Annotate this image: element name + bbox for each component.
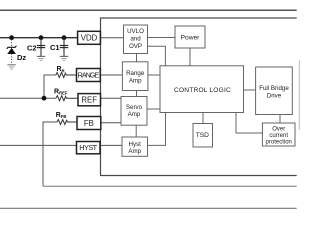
svg-text:OVP: OVP [129, 43, 142, 50]
wire HYST line [0, 144, 77, 146]
wire Range Amp to control logic [148, 74, 160, 76]
wire VDD supply rail [0, 37, 78, 39]
wire control logic to over current protection [236, 113, 262, 134]
wire bottom rail [0, 207, 297, 209]
wire Power to control logic [189, 48, 191, 66]
svg-text:Amp: Amp [128, 111, 141, 118]
wire Hyst Amp to control logic [148, 113, 166, 146]
svg-text:Hyst: Hyst [129, 141, 142, 148]
svg-text:TSD: TSD [196, 132, 209, 139]
wire VDD to UVLO [100, 37, 123, 39]
wire UVLO to Power [148, 37, 176, 39]
wire control logic to TSD [202, 113, 204, 124]
node junction REF [42, 96, 47, 101]
zener diode Dz [7, 40, 17, 70]
pin HYST [77, 142, 101, 154]
svg-text:HYST: HYST [79, 143, 97, 152]
svg-text:Dz: Dz [17, 53, 26, 62]
wire FB branch [43, 122, 57, 186]
svg-text:protection: protection [266, 139, 292, 145]
wire Servo Amp to control logic [147, 108, 160, 110]
block Servo Amp [121, 97, 147, 126]
wire top output rail [0, 9, 297, 11]
block Hyst Amp [122, 137, 148, 156]
node junction C1 [62, 35, 67, 40]
wire HYST to Hyst Amp [100, 144, 122, 146]
pin REF [78, 94, 101, 106]
wire REF line [0, 97, 56, 99]
IC outline [101, 18, 297, 176]
block Full Bridge Drive [256, 67, 293, 115]
wire clipped right edge [298, 60, 300, 130]
node junction C2 [39, 35, 44, 40]
resistor RREF [56, 96, 78, 101]
wire RANGE to Range Amp [100, 74, 122, 76]
svg-text:current: current [269, 133, 288, 139]
wire UVLO to control logic [148, 46, 166, 66]
svg-text:FB: FB [84, 119, 94, 128]
block TSD [193, 124, 213, 148]
svg-text:RANGE: RANGE [78, 71, 100, 80]
svg-text:Drive: Drive [267, 93, 282, 100]
wire REF to Servo Amp [101, 97, 122, 99]
resistor RR [56, 73, 77, 78]
svg-text:C1: C1 [50, 43, 60, 52]
svg-text:REF: REF [81, 95, 97, 104]
capacitor C2 [37, 38, 45, 61]
wire RANGE branch [44, 75, 56, 98]
resistor RFB [57, 120, 77, 125]
svg-text:CONTROL LOGIC: CONTROL LOGIC [174, 87, 231, 94]
svg-text:UVLO: UVLO [127, 28, 144, 35]
svg-text:Amp: Amp [128, 148, 141, 155]
svg-text:Power: Power [181, 35, 200, 42]
wire Servo Amp to Hyst Amp [135, 125, 137, 137]
wire FB to Servo Amp [101, 122, 121, 124]
block Range Amp [122, 62, 147, 91]
pin FB [77, 117, 101, 130]
node junction Dz [9, 35, 14, 40]
pin RANGE [77, 69, 101, 82]
svg-text:Amp: Amp [129, 78, 142, 85]
block Over current protection [262, 123, 295, 146]
capacitor C1 [60, 38, 68, 61]
wire UVLO to Range Amp [136, 54, 138, 62]
wire feedback bottom [43, 185, 297, 187]
wire Range Amp to Servo Amp [136, 91, 138, 97]
block Power [175, 26, 205, 48]
svg-text:Over: Over [272, 126, 285, 132]
block CONTROL LOGIC [160, 66, 244, 113]
svg-text:C2: C2 [27, 44, 37, 53]
block UVLO and OVP U1 [124, 25, 148, 54]
wire Full Bridge Drive to over current protection [279, 115, 281, 124]
svg-text:and: and [130, 36, 141, 43]
svg-text:VDD: VDD [81, 33, 98, 42]
svg-text:Servo: Servo [126, 104, 143, 111]
svg-text:Range: Range [126, 70, 145, 77]
wire control logic to Full Bridge Drive [244, 89, 256, 91]
pin VDD [78, 31, 101, 44]
svg-text:Full Bridge: Full Bridge [259, 85, 289, 92]
